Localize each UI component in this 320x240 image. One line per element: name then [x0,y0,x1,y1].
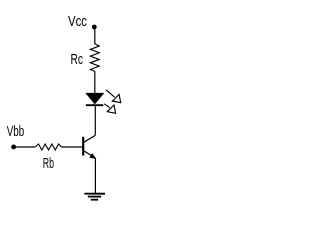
label Rb [43,156,54,172]
wire LED cathode to transistor collector [94,106,96,135]
LED anode triangle [86,93,103,103]
node Vcc label [68,14,87,30]
svg-text:Rc: Rc [71,52,84,68]
node Vbb terminal dot [11,145,16,150]
wire Vbb dot to resistor Rb [14,146,36,148]
wire Rb to transistor base [62,146,84,148]
resistor Rc [90,44,99,72]
svg-text:Vcc: Vcc [68,14,87,30]
wire Vcc dot to resistor Rc [94,28,96,45]
svg-text:Vbb: Vbb [7,124,25,140]
resistor Rb [35,144,61,150]
transistor Q1 collector lead [84,135,96,142]
wire Rc to LED anode [94,71,96,93]
wire emitter to ground [94,158,96,193]
transistor Q1 emitter arrowhead [90,154,96,159]
svg-text:Rb: Rb [43,156,54,172]
LED cathode bar [86,104,103,106]
transistor Q1 emitter lead [84,151,96,159]
node Vbb label [7,124,25,140]
ground symbol [84,194,105,200]
label Rc [71,52,84,68]
LED light arrow 1 [106,90,121,103]
LED light arrow 2 [104,104,115,114]
transistor Q1 base bar [82,137,84,156]
node Vcc terminal dot [92,25,97,30]
